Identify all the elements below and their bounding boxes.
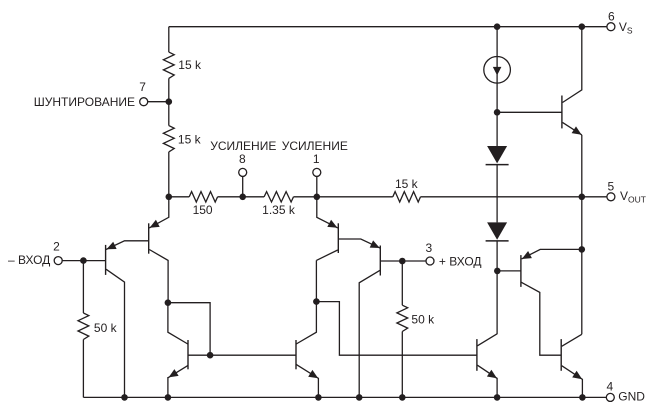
wire current source column [496, 27, 498, 146]
wire top rail VS [169, 26, 607, 28]
node row-left junction [166, 194, 173, 201]
wire [168, 78, 170, 101]
terminal pin 7 [140, 98, 148, 106]
wire row to VOUT [421, 196, 607, 198]
wire bias tap to Q10 base [497, 111, 562, 113]
node Q8 emitter-GND junction [579, 394, 586, 401]
wire 50k upper lead [82, 261, 84, 313]
wire pin8 stem [242, 176, 244, 196]
wire [169, 196, 189, 198]
svg-text:4: 4 [607, 379, 614, 393]
node Q1 collector-GND junction [121, 394, 128, 401]
wire right column [581, 135, 583, 334]
transistor Q3 collector [316, 250, 337, 260]
wire [294, 196, 393, 198]
node input-right junction [399, 258, 406, 265]
wire mirror to driver base [316, 302, 477, 356]
node input-left junction [80, 257, 87, 264]
svg-text:+ ВХОД: + ВХОД [439, 254, 482, 268]
transistor Q6 emitter [296, 364, 318, 397]
wire pin7 lead [148, 101, 169, 103]
node junction top current-source [494, 23, 501, 30]
transistor Q5 emitter [168, 366, 188, 398]
node bias tap junction [494, 109, 501, 116]
diode D2 [487, 222, 507, 239]
node Q4 collector-GND junction [356, 394, 363, 401]
transistor Q2 base bar [148, 223, 150, 253]
wire 50k right upper lead [401, 261, 403, 305]
transistor Q6 base bar [295, 340, 297, 369]
resistor 15k feedback [393, 192, 421, 202]
wire 50k right lower lead [401, 332, 403, 398]
resistor 1.35k [264, 192, 293, 202]
wire left column upper [168, 27, 170, 52]
terminal pin 3 [426, 257, 434, 265]
node Q5 emitter-GND junction [165, 394, 172, 401]
transistor Q1 collector [106, 269, 125, 397]
terminal pin 4 [606, 393, 614, 401]
transistor Q1 emitter [106, 241, 149, 250]
svg-text:1: 1 [313, 152, 320, 166]
node Q9 base junction [494, 268, 501, 275]
resistor 15k upper [163, 52, 174, 78]
transistor Q2 emitter [149, 197, 169, 228]
transistor Q8 base bar [560, 339, 562, 371]
svg-text:15 k: 15 k [395, 177, 419, 191]
terminal pin 5 [607, 193, 615, 201]
node mirror-left junction [165, 299, 172, 306]
node VOUT junction [579, 194, 586, 201]
terminal pin 6 [607, 23, 615, 31]
current source arrow [493, 67, 502, 76]
diode D1 [487, 146, 507, 163]
wire pin2 to node [62, 260, 105, 262]
node Q7 emitter-GND junction [494, 394, 501, 401]
wire between diodes [496, 165, 498, 223]
svg-text:ШУНТИРОВАНИЕ: ШУНТИРОВАНИЕ [34, 95, 135, 109]
svg-text:1.35 k: 1.35 k [262, 203, 296, 217]
svg-text:УСИЛЕНИЕ: УСИЛЕНИЕ [282, 139, 348, 153]
terminal pin 8 [239, 168, 247, 176]
node pin1 junction [314, 194, 321, 201]
transistor Q4 collector [359, 270, 380, 397]
wire pin1 stem [316, 176, 318, 196]
node 50k-GND junction [399, 394, 406, 401]
transistor Q7 emitter [477, 365, 497, 397]
transistor Q1 base bar [105, 245, 107, 275]
transistor Q4 base bar [379, 246, 381, 276]
svg-text:150: 150 [193, 203, 213, 217]
resistor 50k right [397, 305, 408, 331]
transistor Q7 collector [477, 334, 497, 346]
node mirror base junction [207, 352, 214, 359]
transistor Q10 collector [563, 27, 582, 103]
wire [168, 102, 170, 126]
svg-text:3: 3 [426, 241, 433, 255]
svg-text:5: 5 [608, 179, 615, 193]
wire diode to driver collector [496, 241, 498, 334]
node Q6 emitter-GND junction [315, 394, 322, 401]
resistor 150 [189, 192, 217, 202]
transistor Q4 base wire [380, 260, 426, 262]
svg-text:15 k: 15 k [178, 58, 202, 72]
svg-text:2: 2 [53, 239, 60, 253]
transistor Q9 emitter [522, 249, 582, 259]
transistor Q9 collector [521, 282, 561, 355]
transistor Q3 base to Q4 emitter wire [338, 239, 380, 248]
transistor Q5 collector [168, 303, 188, 344]
terminal pin 1 [313, 168, 321, 176]
wire Q9 base [497, 270, 521, 272]
svg-text:8: 8 [239, 152, 246, 166]
transistor Q5 base bar [187, 340, 189, 369]
wire [168, 152, 170, 197]
transistor Q8 collector [562, 334, 582, 346]
wire 50k lower lead [82, 340, 84, 398]
transistor Q9 base bar [520, 255, 522, 287]
transistor Q10 base bar [561, 96, 563, 129]
transistor Q2 collector [149, 250, 168, 303]
node Q6 collector junction [313, 298, 320, 305]
transistor Q7 base bar [476, 339, 478, 371]
svg-text:– ВХОД: – ВХОД [8, 253, 50, 267]
svg-text:7: 7 [139, 80, 146, 94]
svg-text:GND: GND [618, 389, 645, 403]
wire mirror base [188, 354, 296, 356]
current source circle [484, 57, 511, 84]
svg-text:15 k: 15 k [178, 133, 202, 147]
svg-text:6: 6 [608, 9, 615, 23]
svg-text:50 k: 50 k [411, 312, 435, 326]
node junction top Q10 collector [579, 23, 586, 30]
resistor 15k lower [163, 126, 174, 152]
transistor Q8 emitter [562, 366, 583, 398]
transistor Q3 base bar [337, 223, 339, 253]
svg-text:50 k: 50 k [94, 321, 118, 335]
node pin8 junction [239, 194, 246, 201]
wire bottom rail GND [83, 396, 606, 398]
transistor Q10 emitter [563, 122, 582, 134]
node Q9 emitter junction [579, 246, 586, 253]
terminal pin 2 [54, 257, 62, 265]
wire [218, 196, 265, 198]
transistor Q6 collector [296, 260, 316, 344]
transistor Q3 emitter [317, 197, 338, 228]
node pin7 junction [166, 98, 173, 105]
svg-text:УСИЛЕНИЕ: УСИЛЕНИЕ [210, 139, 276, 153]
resistor 50k left [78, 313, 89, 340]
wire mirror tie [168, 303, 210, 356]
